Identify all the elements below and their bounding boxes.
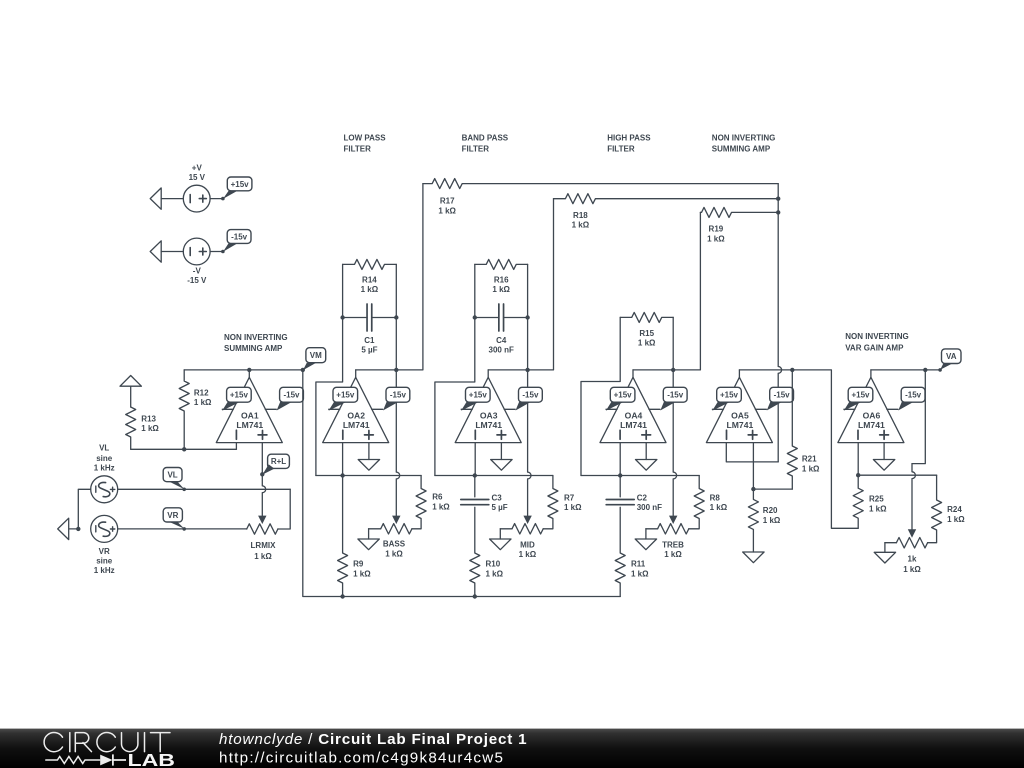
wire	[474, 443, 476, 476]
svg-text:VM: VM	[310, 351, 322, 360]
op-amp OA6	[838, 370, 904, 443]
resistor R8	[689, 476, 728, 529]
CircuitLab logo LAB	[128, 750, 175, 768]
wire	[581, 317, 620, 475]
wire	[278, 489, 290, 529]
svg-text:VAR GAIN AMP: VAR GAIN AMP	[845, 343, 904, 352]
svg-text:LOW PASS: LOW PASS	[344, 133, 387, 142]
svg-text:1 kΩ: 1 kΩ	[710, 503, 728, 512]
svg-text:1 kΩ: 1 kΩ	[194, 398, 212, 407]
svg-text:sine: sine	[96, 454, 113, 463]
svg-text:R16: R16	[494, 276, 509, 285]
flag -15v OA1	[277, 387, 304, 410]
svg-text:1 kΩ: 1 kΩ	[564, 503, 582, 512]
svg-text:MID: MID	[520, 540, 535, 549]
label non inverting summing amp	[712, 133, 776, 153]
flag +15v OA6	[844, 387, 873, 411]
svg-text:1 kΩ: 1 kΩ	[802, 464, 820, 473]
op-amp OA1	[216, 370, 282, 443]
resistor R19	[700, 207, 778, 243]
wire	[523, 368, 531, 524]
svg-text:1 kΩ: 1 kΩ	[353, 569, 371, 578]
wire	[131, 443, 237, 452]
svg-text:-15v: -15v	[667, 391, 684, 400]
svg-text:http://circuitlab.com/c4g9k84u: http://circuitlab.com/c4g9k84ur4cw5	[219, 750, 504, 767]
svg-text:1 kΩ: 1 kΩ	[486, 569, 504, 578]
svg-text:R25: R25	[869, 495, 884, 504]
resistor R16	[475, 259, 528, 293]
label high pass filter	[607, 133, 651, 153]
ground	[150, 241, 183, 262]
svg-text:+15v: +15v	[851, 391, 870, 400]
voltage source +V 15V	[183, 164, 210, 213]
svg-text:1 kΩ: 1 kΩ	[572, 221, 590, 230]
flag +15v OA3	[461, 387, 490, 411]
svg-text:SUMMING AMP: SUMMING AMP	[224, 344, 283, 353]
wire	[316, 473, 421, 477]
svg-text:1 kΩ: 1 kΩ	[361, 285, 379, 294]
wire	[619, 443, 621, 476]
potentiometer MID	[500, 524, 543, 559]
svg-text:C4: C4	[496, 336, 507, 345]
svg-text:C1: C1	[364, 336, 375, 345]
svg-text:-15v: -15v	[231, 232, 248, 241]
svg-text:R19: R19	[709, 225, 724, 234]
op-amp OA3	[455, 370, 521, 443]
svg-text:1 kΩ: 1 kΩ	[385, 550, 403, 559]
svg-text:+15v: +15v	[614, 391, 633, 400]
flag R+L	[262, 454, 289, 474]
op-amp OA4	[600, 370, 666, 443]
svg-text:1 kΩ: 1 kΩ	[869, 505, 887, 514]
footer bar	[0, 729, 1024, 768]
svg-text:R7: R7	[564, 493, 575, 502]
svg-text:R11: R11	[631, 559, 646, 568]
svg-text:BAND PASS: BAND PASS	[462, 133, 509, 142]
resistor R21	[753, 370, 820, 489]
svg-text:SUMMING AMP: SUMMING AMP	[712, 145, 771, 154]
svg-text:1 kΩ: 1 kΩ	[903, 565, 921, 574]
svg-text:FILTER: FILTER	[462, 145, 490, 154]
resistor R15	[620, 312, 673, 347]
wire	[316, 264, 345, 475]
wire	[856, 443, 860, 478]
svg-text:R10: R10	[486, 559, 501, 568]
svg-text:LRMIX: LRMIX	[251, 541, 277, 550]
flag -15v OA5	[767, 387, 794, 410]
potentiometer 1k	[885, 538, 928, 575]
ground	[490, 529, 511, 550]
flag +15v	[223, 177, 252, 199]
potentiometer LRMIX	[247, 524, 278, 561]
ground	[635, 529, 656, 550]
svg-text:R20: R20	[763, 506, 778, 515]
svg-text:sine: sine	[96, 557, 113, 566]
potentiometer TREB	[646, 524, 689, 559]
svg-text:1 kHz: 1 kHz	[94, 566, 115, 575]
svg-text:NON INVERTING: NON INVERTING	[845, 332, 909, 341]
svg-text:1 kΩ: 1 kΩ	[763, 516, 781, 525]
svg-text:R12: R12	[194, 388, 209, 397]
svg-text:C3: C3	[492, 493, 503, 502]
wire	[751, 443, 755, 492]
svg-text:NON INVERTING: NON INVERTING	[712, 133, 776, 142]
svg-text:R15: R15	[639, 329, 654, 338]
ground	[358, 529, 379, 550]
label non inverting var gain amp	[845, 332, 909, 352]
svg-text:VR: VR	[167, 511, 178, 520]
svg-text:LM741: LM741	[475, 420, 502, 430]
wire	[356, 184, 423, 370]
resistor R25	[853, 475, 887, 528]
svg-text:FILTER: FILTER	[607, 145, 635, 154]
resistor R13	[126, 407, 160, 449]
label band pass filter	[462, 133, 509, 153]
wire summing node	[726, 184, 781, 462]
flag -15v	[223, 230, 251, 252]
resistor R14	[343, 259, 397, 293]
ground	[150, 188, 183, 209]
ground	[491, 443, 512, 471]
svg-text:HIGH PASS: HIGH PASS	[607, 133, 651, 142]
svg-text:LAB: LAB	[128, 750, 175, 768]
svg-text:R21: R21	[802, 455, 817, 464]
resistor R11	[615, 507, 649, 596]
ground	[120, 376, 141, 408]
svg-text:1 kΩ: 1 kΩ	[707, 235, 725, 244]
voltage source VL sine 1kHz	[91, 444, 118, 503]
resistor R20	[748, 489, 781, 552]
wire	[210, 250, 225, 254]
flag +15v OA4	[606, 387, 635, 411]
svg-text:LM741: LM741	[727, 420, 754, 430]
svg-text:-15v: -15v	[774, 391, 791, 400]
label low pass filter	[344, 133, 387, 153]
flag +15v OA2	[329, 387, 358, 411]
svg-text:+15v: +15v	[230, 391, 249, 400]
svg-text:5 µF: 5 µF	[361, 345, 377, 354]
wire	[184, 368, 303, 372]
flag VL	[163, 468, 186, 492]
svg-text:VL: VL	[99, 444, 109, 453]
wire	[488, 199, 553, 370]
svg-text:LM741: LM741	[236, 420, 263, 430]
wire	[633, 212, 700, 370]
voltage source VR sine 1kHz	[91, 515, 118, 575]
svg-text:1 kΩ: 1 kΩ	[438, 207, 456, 216]
resistor R12	[179, 370, 212, 449]
svg-text:-V: -V	[193, 267, 202, 276]
wire	[392, 368, 400, 524]
CircuitLab logo resistor-diode glyph	[46, 754, 126, 765]
flag VR	[163, 508, 186, 531]
svg-text:1 kΩ: 1 kΩ	[254, 552, 272, 561]
svg-text:R14: R14	[362, 276, 377, 285]
ground	[743, 552, 764, 563]
capacitor C3	[461, 476, 508, 512]
flag VM	[301, 348, 326, 372]
wire	[581, 473, 699, 477]
svg-text:1 kΩ: 1 kΩ	[638, 338, 656, 347]
svg-text:-15v: -15v	[390, 391, 407, 400]
svg-text:1 kΩ: 1 kΩ	[141, 424, 159, 433]
CircuitLab logo text	[44, 732, 170, 751]
svg-text:1 kΩ: 1 kΩ	[664, 550, 682, 559]
svg-text:TREB: TREB	[662, 540, 684, 549]
svg-text:+V: +V	[192, 164, 203, 173]
resistor R18	[554, 194, 779, 230]
wire	[394, 264, 398, 370]
potentiometer BASS	[369, 524, 412, 559]
svg-text:1 kΩ: 1 kΩ	[432, 503, 450, 512]
ground	[873, 443, 894, 471]
node VM wire	[303, 370, 620, 599]
footer url text	[219, 750, 504, 767]
op-amp OA5	[706, 370, 772, 443]
wire	[739, 368, 858, 529]
svg-text:VL: VL	[167, 471, 177, 480]
svg-text:300 nF: 300 nF	[637, 503, 662, 512]
wire VL	[118, 488, 291, 490]
svg-text:1 kΩ: 1 kΩ	[492, 285, 510, 294]
svg-text:+15v: +15v	[231, 180, 250, 189]
wire	[342, 443, 344, 476]
svg-text:R24: R24	[947, 505, 962, 514]
svg-text:-15v: -15v	[905, 391, 922, 400]
wire	[858, 474, 936, 476]
svg-text:+15v: +15v	[336, 391, 355, 400]
wire	[871, 368, 940, 372]
svg-text:R8: R8	[710, 493, 721, 502]
ground	[358, 443, 379, 471]
flag VA	[938, 349, 961, 372]
flag -15v OA2	[383, 387, 410, 410]
svg-text:R6: R6	[432, 493, 443, 502]
svg-text:R13: R13	[141, 415, 156, 424]
ground	[58, 518, 79, 539]
svg-text:1 kΩ: 1 kΩ	[631, 569, 649, 578]
svg-text:FILTER: FILTER	[344, 145, 372, 154]
footer title text	[219, 731, 527, 748]
voltage source -V -15V	[183, 238, 210, 285]
svg-text:R+L: R+L	[271, 457, 286, 466]
svg-text:5 µF: 5 µF	[492, 503, 508, 512]
resistor R7	[543, 476, 582, 529]
svg-text:+15v: +15v	[720, 391, 739, 400]
svg-text:R18: R18	[573, 211, 588, 220]
svg-text:-15v: -15v	[283, 391, 300, 400]
svg-text:+15v: +15v	[469, 391, 488, 400]
capacitor C4	[475, 304, 528, 354]
resistor R9	[338, 476, 372, 597]
svg-text:300 nF: 300 nF	[489, 345, 514, 354]
wire	[672, 317, 674, 370]
flag -15v OA4	[660, 387, 687, 410]
svg-text:1k: 1k	[908, 554, 917, 563]
svg-text:1 kHz: 1 kHz	[94, 464, 115, 473]
wire	[258, 474, 266, 524]
flag +15v OA5	[712, 387, 741, 411]
label non inverting summing amp OA1	[224, 333, 288, 353]
ground	[636, 443, 657, 471]
svg-text:-15v: -15v	[522, 391, 539, 400]
resistor R6	[412, 476, 450, 529]
svg-text:VA: VA	[946, 352, 957, 361]
svg-text:-15 V: -15 V	[187, 276, 207, 285]
svg-text:LM741: LM741	[858, 420, 885, 430]
svg-text:NON INVERTING: NON INVERTING	[224, 333, 288, 342]
svg-text:R9: R9	[353, 559, 364, 568]
flag -15v OA3	[516, 387, 543, 410]
svg-text:1 kΩ: 1 kΩ	[519, 550, 537, 559]
svg-text:LM741: LM741	[343, 420, 370, 430]
svg-text:R17: R17	[440, 197, 455, 206]
svg-text:VR: VR	[99, 547, 110, 556]
wire	[260, 443, 264, 477]
svg-text:1 kΩ: 1 kΩ	[947, 515, 965, 524]
wire	[435, 473, 553, 477]
wire	[76, 489, 91, 531]
wire	[210, 197, 225, 201]
resistor R10	[470, 507, 504, 596]
wire	[525, 264, 529, 370]
capacitor C1	[343, 304, 397, 354]
op-amp OA2	[323, 370, 389, 443]
ground	[874, 543, 895, 563]
resistor R24	[928, 475, 966, 543]
resistor R17	[423, 179, 778, 216]
svg-text:C2: C2	[637, 493, 648, 502]
flag -15v OA6	[898, 387, 925, 410]
wire VR	[118, 528, 247, 530]
wire	[669, 368, 677, 524]
svg-text:BASS: BASS	[383, 540, 406, 549]
svg-text:LM741: LM741	[620, 420, 647, 430]
svg-text:15 V: 15 V	[189, 173, 206, 182]
wire	[908, 370, 926, 538]
flag +15v OA1	[222, 387, 251, 411]
svg-text:htownclyde / Circuit Lab Final: htownclyde / Circuit Lab Final Project 1	[219, 731, 527, 748]
wire	[435, 264, 477, 475]
capacitor C2	[606, 476, 662, 512]
